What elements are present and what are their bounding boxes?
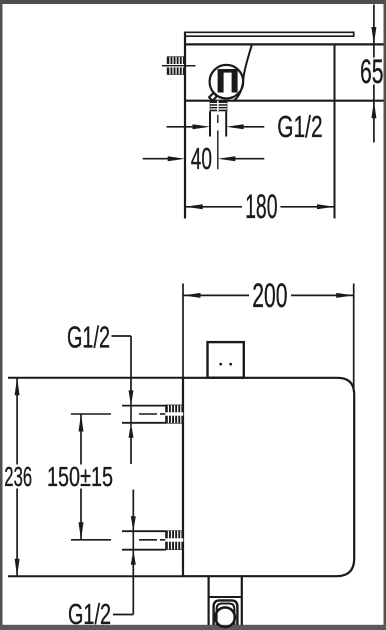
spout curve (top view) bbox=[234, 45, 252, 101]
wall bracket bar (top view) bbox=[185, 32, 354, 38]
body top edge + 65 extension (top view) bbox=[184, 43, 384, 45]
hose circle (front view) bbox=[215, 607, 235, 627]
window border bottom bbox=[0, 625, 386, 630]
body outline (front view, rounded right corners) bbox=[183, 378, 354, 576]
handle circle (top view) bbox=[210, 65, 244, 99]
body bottom edge + 65 extension (top view) bbox=[184, 100, 384, 102]
150±15 dimension (front view) bbox=[79, 414, 84, 540]
diverter button (front view) bbox=[208, 342, 244, 378]
svg-text:180: 180 bbox=[245, 188, 277, 226]
upper inlet threaded block (front view) bbox=[165, 405, 183, 424]
upper inlet edge lines (front view) bbox=[122, 405, 166, 407]
handle top symbol (pi shape) bbox=[218, 69, 238, 93]
left inlet threaded block (top view) bbox=[167, 56, 184, 74]
lower inlet centerline (front view) bbox=[71, 539, 166, 541]
65 dimension (top view, right) bbox=[371, 5, 376, 143]
outlet holder outer arch (front view) bbox=[214, 600, 238, 625]
lower inlet edge lines (front view) bbox=[122, 530, 166, 532]
svg-text:200: 200 bbox=[252, 277, 287, 315]
180 dimension (top view) bbox=[185, 204, 334, 209]
236 dimension (front view) bbox=[15, 378, 20, 576]
button dots bbox=[219, 363, 222, 366]
outlet holder inner arch (front view) bbox=[217, 604, 235, 626]
svg-text:40: 40 bbox=[191, 141, 212, 176]
window border right bbox=[384, 0, 386, 630]
bottom outlet threaded block (top view) bbox=[210, 101, 228, 112]
svg-text:G1/2: G1/2 bbox=[67, 320, 110, 355]
svg-text:236: 236 bbox=[4, 461, 32, 492]
body right edge / extension line for 180 (top view) bbox=[334, 44, 336, 218]
lower inlet threaded block (front view) bbox=[165, 530, 183, 550]
window border top bbox=[0, 0, 386, 4]
outlet fixture right edge (front view) bbox=[241, 577, 243, 625]
window border left bbox=[0, 0, 3, 630]
G1/2 upper leader (front view) bbox=[112, 336, 134, 464]
outlet fixture left edge (front view) bbox=[208, 577, 210, 625]
svg-text:150±15: 150±15 bbox=[47, 461, 113, 492]
40 dimension (top view) bbox=[143, 156, 264, 161]
svg-text:65: 65 bbox=[360, 53, 384, 91]
outlet pipe lines (top view) bbox=[209, 111, 211, 136]
G1/2 dimension (top view) bbox=[167, 124, 265, 129]
handle lever stub bbox=[209, 93, 217, 101]
outlet pipe centerline (top view) bbox=[217, 115, 219, 123]
outlet fixture divider (front view) bbox=[209, 596, 242, 598]
body bottom edge extension to left bbox=[8, 575, 183, 577]
body left edge / extension line for 40 and 180 (top view) bbox=[184, 32, 186, 219]
G1/2 lower leader (front view) bbox=[113, 490, 136, 615]
svg-text:G1/2: G1/2 bbox=[68, 599, 111, 630]
left inlet fitting centerline (top view) bbox=[162, 65, 196, 67]
svg-text:G1/2: G1/2 bbox=[277, 109, 322, 144]
upper inlet centerline (front view) bbox=[71, 413, 166, 415]
body top edge extension to left bbox=[8, 377, 183, 379]
200 dimension (front view) bbox=[183, 284, 354, 393]
